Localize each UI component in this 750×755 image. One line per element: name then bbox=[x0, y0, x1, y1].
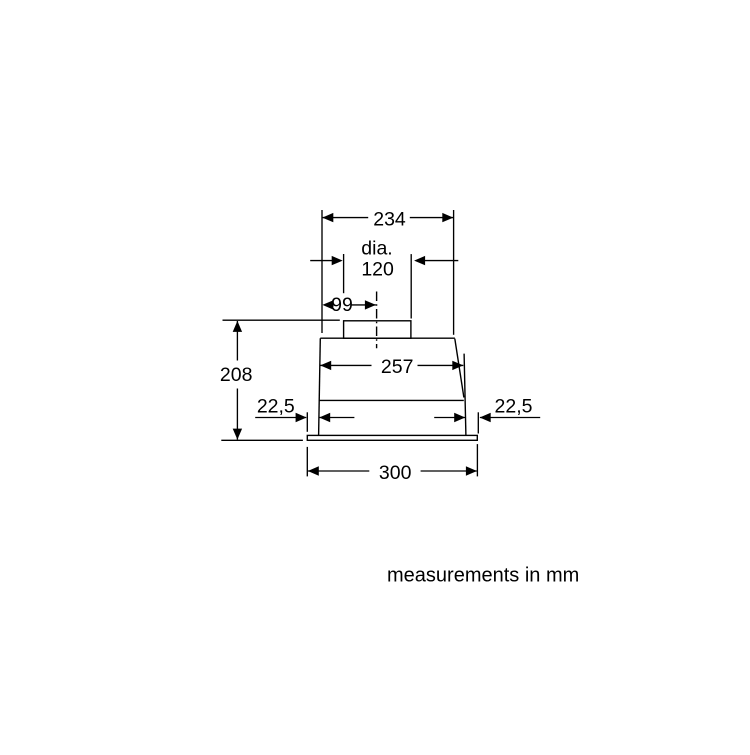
arrowhead 257 left bbox=[320, 361, 331, 370]
arrowhead 234 left bbox=[322, 213, 333, 222]
dim 22,5 left extension line bbox=[306, 412, 308, 432]
arrowhead 22,5 left inner bbox=[319, 413, 330, 422]
dim 22,5 right extension line bbox=[477, 412, 479, 433]
arrowhead 99 right bbox=[365, 300, 376, 309]
arrowhead 22,5 left outer bbox=[296, 413, 307, 422]
arrowhead dia120 left bbox=[332, 256, 343, 265]
svg-text:208: 208 bbox=[220, 364, 253, 386]
svg-text:120: 120 bbox=[361, 258, 394, 280]
dim 257 line left segment bbox=[320, 364, 371, 366]
arrowhead 208 top bbox=[233, 321, 242, 332]
bottom flange rectangle bbox=[307, 435, 477, 440]
dim 22,5 left arrow tail bbox=[255, 417, 306, 419]
svg-text:99: 99 bbox=[331, 294, 353, 316]
dim 208 line upper segment bbox=[236, 321, 238, 361]
arrowhead 22,5 right outer bbox=[480, 413, 491, 422]
dim 234 line left segment bbox=[323, 217, 369, 219]
arrowhead 99 left bbox=[322, 300, 333, 309]
arrowhead 300 left bbox=[308, 466, 319, 475]
arrowhead 208 bottom bbox=[233, 429, 242, 440]
dia 120 right arrow tail bbox=[425, 260, 459, 262]
dia 120 right extension line bbox=[410, 254, 412, 318]
svg-text:22,5: 22,5 bbox=[495, 395, 533, 417]
hood right chamfer edge bbox=[455, 339, 464, 398]
hood left wall bbox=[319, 338, 321, 435]
hood interior seam line bbox=[319, 399, 464, 401]
arrowhead 257 right bbox=[452, 361, 463, 370]
dim 257 line right segment bbox=[418, 364, 464, 366]
dim 300 right extension line bbox=[476, 444, 478, 476]
dim 99 line right segment bbox=[351, 304, 376, 306]
dim 208 bottom reference line bbox=[221, 439, 303, 441]
svg-text:dia.: dia. bbox=[361, 237, 392, 259]
dim 300 line left segment bbox=[308, 470, 370, 472]
arrowhead 234 right bbox=[442, 213, 453, 222]
svg-text:measurements in mm: measurements in mm bbox=[387, 564, 579, 586]
svg-text:257: 257 bbox=[381, 356, 414, 378]
duct collar rectangle bbox=[344, 321, 411, 338]
dim 208 top reference line bbox=[223, 319, 340, 321]
hood right wall bbox=[464, 354, 466, 436]
dim 22,5 right arrow tail bbox=[480, 417, 540, 419]
arrowhead dia120 right bbox=[414, 256, 425, 265]
svg-text:234: 234 bbox=[373, 209, 406, 231]
duct centerline (dash-dot) bbox=[376, 292, 378, 349]
dia 120 left extension line bbox=[343, 254, 345, 293]
dim 208 line lower segment bbox=[236, 389, 238, 440]
svg-text:300: 300 bbox=[379, 462, 412, 484]
dim 234 right extension line bbox=[453, 210, 455, 335]
dim 22,5 left inner arrow tail bbox=[319, 417, 354, 419]
dim 22,5 right inner arrow tail bbox=[434, 417, 465, 419]
dia 120 left arrow tail bbox=[310, 260, 332, 262]
dim 300 line right segment bbox=[421, 470, 477, 472]
dim 234 left extension line bbox=[321, 210, 323, 333]
dim 300 left extension line bbox=[306, 447, 308, 477]
dim 234 line right segment bbox=[410, 217, 453, 219]
arrowhead 22,5 right inner bbox=[454, 413, 465, 422]
hood top edge bbox=[320, 337, 455, 339]
arrowhead 300 right bbox=[466, 466, 477, 475]
svg-text:22,5: 22,5 bbox=[257, 395, 295, 417]
